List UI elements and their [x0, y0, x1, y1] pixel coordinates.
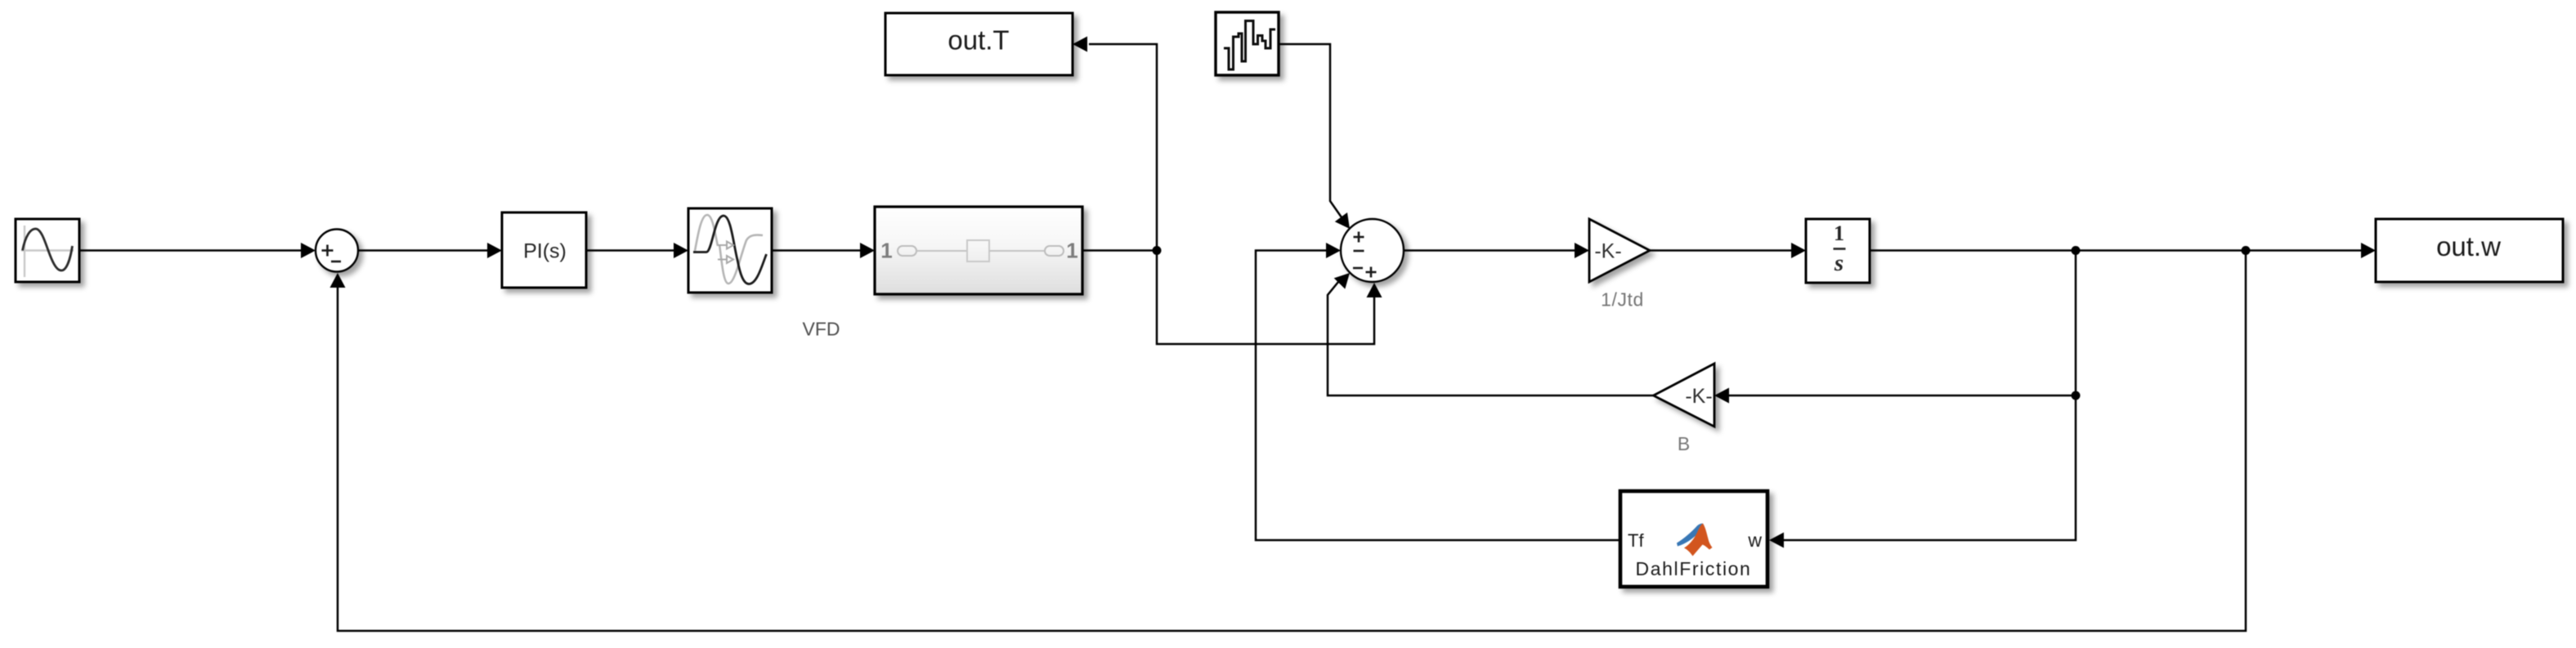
arrowhead into Sum2 left port	[1326, 243, 1341, 258]
arrowhead into Sum2 lower-left port	[1334, 273, 1350, 289]
svg-text:w: w	[1747, 530, 1762, 551]
svg-text:out.w: out.w	[2436, 231, 2501, 261]
arrowhead into out.w	[2361, 243, 2376, 258]
arrowhead into PI(s)	[487, 243, 502, 258]
svg-text:s: s	[1834, 250, 1844, 276]
block Sine Wave source	[16, 219, 79, 282]
wire Integrator to out.w	[1870, 249, 2363, 252]
block DahlFriction MATLAB function	[1620, 491, 1767, 587]
svg-text:out.T: out.T	[948, 25, 1009, 56]
wire junction T up to out.T	[1089, 44, 1157, 251]
wire junction A down to gain B input	[1729, 251, 2076, 396]
gray sine of VFD icon	[695, 215, 718, 251]
arrowhead into out.T	[1073, 37, 1087, 52]
junction dot C on B feedback line	[2072, 391, 2081, 400]
MATLAB logo inside DahlFriction	[1677, 524, 1713, 556]
Sum2 plus sign top	[1354, 236, 1364, 239]
wire DahlFriction Tf output to Sum2 left minus port	[1256, 251, 1620, 541]
wire Subsystem to junction T	[1082, 249, 1157, 252]
Sum2 plus sign bottom	[1366, 271, 1377, 274]
arrowhead into Sum1 left port	[301, 243, 316, 258]
Sum2 minus sign lower-left	[1353, 267, 1363, 270]
svg-text:B: B	[1678, 433, 1690, 454]
small gray arrows of VFD icon	[718, 245, 727, 260]
svg-text:-K-: -K-	[1685, 385, 1712, 408]
arrowhead into VFD block	[674, 243, 688, 258]
junction dot A on speed line	[2072, 246, 2081, 255]
arrowhead into Sum2 bottom port	[1367, 283, 1382, 297]
wire Sine Wave to Sum1	[79, 249, 302, 252]
svg-text:1: 1	[1834, 221, 1844, 245]
wire junction B down and feedback to Sum1 bottom minus port	[338, 251, 2246, 632]
arrowhead into Sum1 bottom port	[330, 273, 346, 288]
block Subsystem	[875, 207, 1082, 294]
block stair random source	[1216, 12, 1279, 75]
block out.w To-Workspace	[2376, 219, 2563, 282]
block gain B	[1654, 364, 1715, 427]
Sum1 plus sign	[322, 249, 334, 252]
wire Sum2 to gain 1/Jtd	[1404, 249, 1576, 252]
arrowhead into Sum2 top-left port	[1335, 212, 1350, 229]
wire junction T down to Sum2 bottom plus port	[1157, 251, 1374, 345]
junction dot B on speed line	[2242, 246, 2251, 255]
wire gain B output to Sum2 lower-left minus port	[1328, 282, 1653, 396]
wire junction C down to DahlFriction w input	[1784, 396, 2076, 540]
svg-text:Tf: Tf	[1628, 530, 1644, 551]
svg-text:-K-: -K-	[1594, 240, 1621, 263]
arrowhead into Integrator	[1791, 243, 1806, 258]
arrowhead into Subsystem	[860, 243, 875, 258]
junction dot T on torque line	[1153, 246, 1162, 255]
svg-text:DahlFriction: DahlFriction	[1636, 558, 1752, 579]
Sum1 minus sign	[331, 261, 341, 263]
wire VFD block to Subsystem	[772, 249, 862, 252]
block VFD wave shaper	[688, 208, 772, 293]
svg-text:1/Jtd: 1/Jtd	[1601, 289, 1644, 311]
arrowhead into gain 1/Jtd	[1575, 243, 1589, 258]
Sum2 minus sign left	[1354, 250, 1364, 252]
block out.T To-Workspace	[885, 13, 1073, 75]
sum junction Sum1	[316, 230, 358, 272]
svg-text:1: 1	[1066, 239, 1077, 263]
svg-text:PI(s): PI(s)	[523, 240, 567, 263]
svg-text:1: 1	[880, 239, 892, 263]
svg-text:VFD: VFD	[803, 319, 840, 340]
sum junction Sum2	[1341, 219, 1404, 282]
black wave of VFD icon	[693, 216, 767, 284]
wire Sum1 to PI(s)	[358, 249, 489, 252]
arrowhead into gain B input	[1714, 388, 1729, 404]
wire stair source down to Sum2 top-left plus port	[1279, 44, 1342, 217]
wire gain 1/Jtd to Integrator	[1650, 249, 1793, 252]
block gain 1/Jtd	[1589, 219, 1650, 282]
wire PI(s) to VFD block	[586, 249, 675, 252]
arrowhead into DahlFriction w input	[1769, 533, 1784, 548]
block Integrator 1/s	[1806, 219, 1870, 283]
block PI(s) controller	[502, 212, 586, 288]
